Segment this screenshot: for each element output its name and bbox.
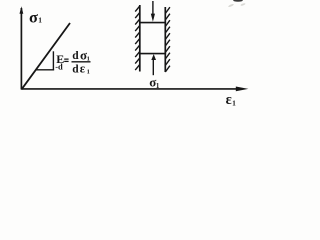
svg-text:1: 1	[156, 82, 160, 90]
svg-text:1: 1	[38, 16, 42, 25]
svg-text:1: 1	[232, 99, 236, 108]
svg-text:σ: σ	[29, 7, 38, 26]
svg-text:d: d	[72, 63, 79, 75]
svg-text:-d: -d	[55, 62, 63, 72]
svg-text:ε: ε	[80, 62, 86, 76]
svg-text:ε: ε	[226, 92, 232, 108]
svg-text:1: 1	[87, 68, 90, 75]
svg-text:d: d	[72, 50, 79, 62]
